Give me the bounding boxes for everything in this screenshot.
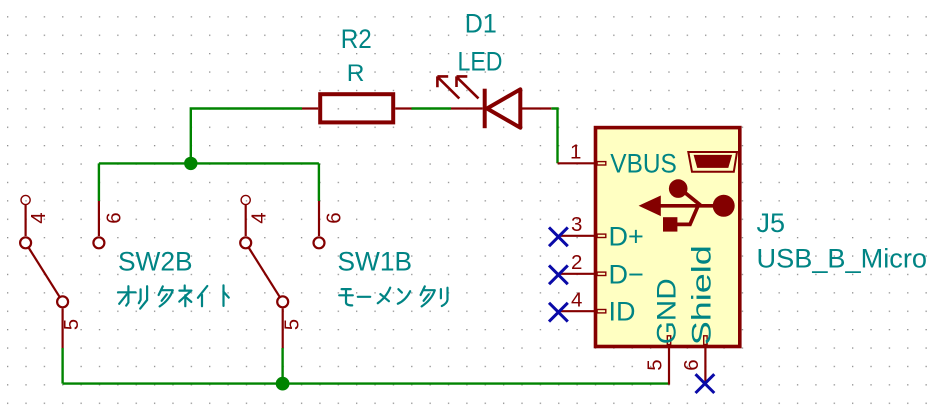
pin 4 ID inner notch	[597, 310, 606, 313]
USB trident icon	[639, 179, 735, 231]
label オルタネイト (katakana, drawn)	[118, 285, 229, 308]
svg-text:Shield: Shield	[687, 245, 717, 345]
junction B on bottom rail	[276, 377, 290, 391]
svg-text:D+: D+	[609, 221, 644, 251]
pin 6 Shield line	[704, 346, 706, 384]
switch SW1B pin 5 line	[282, 308, 284, 348]
pin 3 D+ line	[558, 235, 595, 237]
svg-text:R: R	[347, 60, 365, 87]
diode D1 triangle	[487, 89, 520, 127]
LED emission arrow 1	[437, 76, 459, 98]
switch SW2B pin 5 line	[61, 308, 63, 348]
pin 1 VBUS line	[558, 162, 595, 164]
svg-text:2: 2	[571, 251, 582, 274]
switch SW2B pin 4 line	[25, 205, 27, 236]
switch SW1B pin 6 line	[318, 201, 320, 236]
switch SW1B pin 4 line	[245, 205, 247, 236]
svg-text:4: 4	[247, 212, 270, 223]
pin 6 Shield inner notch	[704, 336, 707, 345]
diode D1 right pin	[520, 107, 551, 109]
wire bottom rail	[63, 382, 670, 384]
svg-text:6: 6	[102, 212, 125, 223]
switch SW2B pin 6 line	[98, 201, 100, 236]
svg-text:5: 5	[644, 359, 667, 370]
switch SW1B pin 5 contact	[277, 296, 288, 307]
switch SW2B pin 4 dangling circle	[21, 195, 30, 204]
switch SW1B lever	[249, 248, 280, 298]
resistor R2 left pin	[302, 107, 318, 109]
VBUS connector trapezoid icon	[688, 152, 737, 172]
svg-text:ID: ID	[609, 296, 636, 326]
svg-text:3: 3	[571, 213, 582, 236]
switch SW1B pin 4 contact	[240, 237, 251, 248]
switch SW2B pin 5 contact	[57, 296, 68, 307]
switch SW2B pin 6 contact	[93, 237, 104, 248]
svg-text:D1: D1	[465, 9, 497, 39]
svg-text:SW1B: SW1B	[338, 247, 413, 277]
pin 4 ID line	[558, 310, 595, 312]
no-connect X pin 3	[549, 227, 568, 246]
svg-text:5: 5	[280, 319, 303, 330]
wire LED right down to USB pin 1	[551, 109, 557, 164]
wire SW2B pin6 drop	[98, 163, 100, 201]
svg-text:J5: J5	[757, 208, 786, 238]
svg-text:5: 5	[60, 319, 83, 330]
svg-text:4: 4	[571, 288, 582, 311]
no-connect X pin 6	[696, 374, 715, 393]
connector J5 body	[596, 128, 740, 347]
pin 2 D- inner notch	[597, 272, 606, 275]
pin 5 GND line	[668, 346, 670, 385]
switch SW1B pin 4 dangling circle	[241, 195, 250, 204]
wire SW1B pin6 drop	[318, 163, 320, 201]
label モーメンタリ (katakana, drawn)	[339, 286, 447, 306]
switch SW2B lever	[29, 248, 60, 298]
wire resistor right to LED	[412, 107, 452, 109]
svg-text:USB_B_Micro: USB_B_Micro	[757, 243, 928, 273]
svg-text:4: 4	[27, 212, 50, 223]
pin 1 VBUS inner notch	[597, 162, 606, 165]
wire SW2B pin5 to bottom rail	[61, 348, 63, 384]
diode D1 left pin	[451, 107, 483, 109]
resistor R2 body	[320, 94, 393, 122]
svg-text:6: 6	[680, 359, 703, 370]
switch SW2B pin 4 contact	[20, 237, 31, 248]
svg-text:R2: R2	[341, 24, 372, 54]
wire from resistor left to junction A	[191, 109, 302, 164]
wire horizontal bus between switch tops	[99, 162, 319, 164]
pin 5 GND inner notch	[667, 336, 670, 345]
LED emission arrow 2	[457, 76, 479, 98]
svg-text:VBUS: VBUS	[610, 148, 677, 178]
pin 2 D- line	[558, 273, 595, 275]
svg-text:6: 6	[322, 212, 345, 223]
resistor R2 right pin	[395, 107, 411, 109]
svg-text:GND: GND	[652, 278, 682, 344]
junction A at wire from resistor	[184, 157, 197, 170]
wire SW1B pin5 drop to rail	[281, 348, 283, 384]
svg-text:1: 1	[570, 141, 581, 164]
pin 3 D+ inner notch	[597, 234, 606, 237]
svg-text:SW2B: SW2B	[118, 247, 193, 277]
switch SW1B pin 6 contact	[314, 237, 325, 248]
svg-text:D−: D−	[609, 259, 644, 289]
diode D1 cathode bar	[483, 89, 487, 129]
no-connect X pin 2	[549, 265, 568, 284]
svg-text:LED: LED	[458, 47, 503, 77]
no-connect X pin 4	[549, 303, 568, 322]
